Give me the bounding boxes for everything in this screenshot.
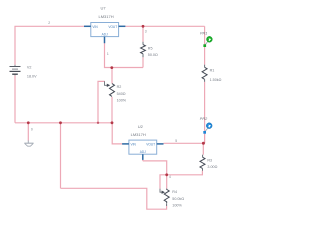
svg-text:540Ω: 540Ω <box>117 92 126 96</box>
svg-text:LM317H: LM317H <box>131 132 146 137</box>
svg-text:R1: R1 <box>210 69 215 73</box>
svg-text:50.0kΩ: 50.0kΩ <box>172 197 184 201</box>
wire R3 bottom to node 4 <box>167 171 203 175</box>
wire pot R2 wiper to ground rail <box>98 81 105 122</box>
potentiometer R4 <box>160 189 184 208</box>
junction node 4 <box>165 173 168 176</box>
svg-text:3: 3 <box>145 29 147 33</box>
wire battery- down to ground rail <box>14 75 16 123</box>
svg-text:ADJ: ADJ <box>102 32 108 36</box>
wire junction down to R3 <box>202 143 204 154</box>
wire battery+ up and across to U7 VIN <box>15 26 84 64</box>
svg-text:4: 4 <box>169 175 171 179</box>
svg-text:50.0Ω: 50.0Ω <box>148 53 158 57</box>
probe PR1 <box>200 31 212 47</box>
svg-text:VIN: VIN <box>92 25 98 29</box>
resistor R1 <box>202 65 222 83</box>
svg-text:PR1: PR1 <box>200 31 207 35</box>
svg-text:5: 5 <box>175 139 177 143</box>
svg-text:ADJ: ADJ <box>140 150 146 154</box>
wire ground stem <box>27 123 29 141</box>
ground <box>24 140 33 146</box>
op-amp U2 (LM317H regulator) <box>122 124 163 160</box>
junction left drop <box>59 121 62 124</box>
svg-text:3.00Ω: 3.00Ω <box>207 165 217 169</box>
wire U7 VOUT run to right column <box>125 25 204 27</box>
wire R5 top lead from node 3 <box>142 26 144 42</box>
battery V2 <box>10 65 38 79</box>
svg-text:R2: R2 <box>117 85 122 89</box>
resistor R5 <box>141 42 158 58</box>
resistor R3 <box>200 155 218 171</box>
junction pot R2 top at ADJ net <box>110 66 113 69</box>
wire feed to U2 VIN <box>112 123 122 144</box>
svg-text:LM317H: LM317H <box>99 14 114 19</box>
svg-text:R5: R5 <box>148 46 153 50</box>
svg-text:VIN: VIN <box>131 142 137 146</box>
wire pot R2 top lead <box>111 68 113 84</box>
junction ground stem <box>27 121 30 124</box>
junction U2 VOUT node <box>202 142 205 145</box>
wire left drop to bottom rail <box>60 123 62 189</box>
wire PR2 stub <box>204 133 206 143</box>
svg-text:VOUT: VOUT <box>108 25 117 29</box>
wire pot R2 bottom lead <box>111 97 113 123</box>
svg-text:18.0V: 18.0V <box>27 75 37 79</box>
wire U7 ADJ down and right <box>105 43 144 68</box>
wire U2 VOUT to junction <box>164 142 204 144</box>
svg-text:U7: U7 <box>101 5 107 10</box>
svg-text:1: 1 <box>107 52 109 56</box>
svg-text:2: 2 <box>48 21 50 25</box>
wire bottom rail to R4 bottom <box>61 188 167 209</box>
wire ground rail <box>15 122 112 124</box>
svg-text:R4: R4 <box>172 190 177 194</box>
wire right column through R1 down to junction <box>204 26 206 143</box>
svg-text:U2: U2 <box>138 124 144 129</box>
op-amp U7 (LM317H regulator) <box>84 5 125 43</box>
junction wiper R2 <box>97 122 99 124</box>
svg-text:VOUT: VOUT <box>146 142 155 146</box>
svg-text:100%: 100% <box>117 98 127 102</box>
junction node 3 <box>142 25 145 28</box>
potentiometer R2 <box>105 81 127 102</box>
junction pot R2 bottom <box>111 121 114 124</box>
svg-text:0: 0 <box>31 127 33 131</box>
wire pot R4 wiper link to node 4 <box>160 175 167 189</box>
svg-text:V2: V2 <box>27 66 32 70</box>
svg-text:1.50kΩ: 1.50kΩ <box>210 78 222 82</box>
wire R5 bottom lead to ADJ net <box>142 57 144 67</box>
wire U2 ADJ down and right to node 4 <box>143 160 167 175</box>
svg-text:PR2: PR2 <box>200 117 208 121</box>
svg-text:100%: 100% <box>172 203 182 207</box>
probe PR2 <box>200 117 212 134</box>
wire node 4 down to pot R4 top <box>166 175 168 189</box>
svg-text:R3: R3 <box>207 158 212 162</box>
